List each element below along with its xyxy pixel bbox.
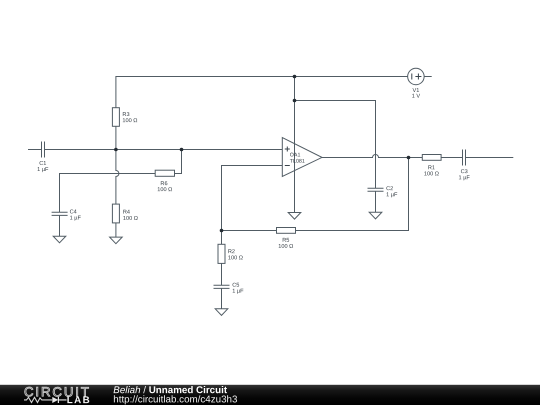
resistor R5 <box>277 228 296 234</box>
svg-text:100 Ω: 100 Ω <box>157 187 172 193</box>
junction: input line / R3-R4 column <box>114 148 118 152</box>
capacitor C1 plates <box>42 142 45 158</box>
capacitor C5 plates <box>214 285 230 288</box>
wire: op-amp inverting input line <box>222 166 283 231</box>
capacitor C2 plates <box>368 188 384 191</box>
svg-text:1 µF: 1 µF <box>459 175 471 181</box>
wire: input line from C1 right plate to op-amp + input <box>45 149 283 151</box>
wire: R2/C5 column to ground <box>221 231 223 309</box>
ground below C4 <box>53 236 66 243</box>
junction: input line / R6 riser <box>180 148 184 152</box>
resistor R1 <box>422 155 441 161</box>
ground below op-amp power column <box>288 213 301 220</box>
svg-text:1 µF: 1 µF <box>232 289 244 295</box>
voltage source V1 circle <box>408 68 425 85</box>
V1 plus symbol <box>415 74 421 80</box>
junction: power column / C2 branch <box>293 99 297 103</box>
op-amp - input symbol <box>285 165 290 167</box>
wire: C2 bottom to ground <box>375 191 377 212</box>
resistor R3 <box>112 108 119 127</box>
svg-text:C3: C3 <box>461 169 468 175</box>
wire: V1 right stub <box>424 76 432 78</box>
svg-text:C4: C4 <box>70 209 77 215</box>
wire: op-amp power column from supply rail through triangle down to ground <box>294 77 296 213</box>
svg-text:1 µF: 1 µF <box>37 167 49 173</box>
ground below R4 <box>110 237 123 244</box>
svg-text:1 V: 1 V <box>412 94 421 100</box>
footer bar background <box>0 385 540 405</box>
svg-text:R3: R3 <box>122 112 129 118</box>
wire: C4 to R6 horizontal line <box>60 174 156 237</box>
svg-text:100 Ω: 100 Ω <box>123 216 138 222</box>
svg-text:100 Ω: 100 Ω <box>424 171 439 177</box>
junction: inverting column / R5 line <box>220 229 224 233</box>
svg-text:R2: R2 <box>228 249 235 255</box>
svg-text:LAB: LAB <box>67 395 91 405</box>
svg-text:100 Ω: 100 Ω <box>228 255 243 261</box>
resistor R6 <box>155 170 174 176</box>
wire: R6 right terminal up to input line <box>175 150 182 174</box>
svg-text:100 Ω: 100 Ω <box>278 244 293 250</box>
capacitor C4 plates <box>52 212 68 215</box>
wire: supply branch to bypass cap C2 (horizontal at y=100.5) <box>295 101 376 189</box>
ground below C5 <box>215 309 228 316</box>
svg-text:1 µF: 1 µF <box>70 216 82 222</box>
svg-text:R5: R5 <box>282 238 289 244</box>
wire: input line left end to C1 left plate <box>28 149 42 151</box>
junction: output node / feedback <box>407 156 411 160</box>
op-amp OA1 triangle <box>282 138 322 177</box>
svg-text:http://circuitlab.com/c4zu3h3: http://circuitlab.com/c4zu3h3 <box>113 394 238 405</box>
wire: output line right of C3 <box>466 157 514 159</box>
svg-text:C5: C5 <box>232 283 239 289</box>
svg-text:OA1: OA1 <box>290 152 301 158</box>
logo diode <box>52 397 58 403</box>
svg-text:R1: R1 <box>428 165 435 171</box>
wire: op-amp output line with hop over C2 column <box>322 155 463 158</box>
svg-text:R4: R4 <box>123 210 130 216</box>
op-amp + input symbol <box>285 147 290 152</box>
svg-text:100 Ω: 100 Ω <box>122 118 137 124</box>
svg-text:TL081: TL081 <box>290 159 305 165</box>
V1 minus terminal bar <box>411 74 413 80</box>
capacitor C3 plates <box>463 150 466 166</box>
resistor R4 <box>112 204 119 223</box>
svg-text:C1: C1 <box>39 161 46 167</box>
logo resistor zigzag <box>24 397 52 402</box>
wire: feedback from output node down and left through R5 to inverting input <box>222 158 409 231</box>
svg-text:1 µF: 1 µF <box>386 192 398 198</box>
wire: top supply rail from R3 column to V1 <box>116 77 408 150</box>
ground below C2 <box>369 212 382 219</box>
wire: R3/R4 column with hop over C4-R6 line <box>116 150 119 238</box>
resistor R2 <box>218 244 225 263</box>
junction: supply rail / power column <box>293 75 297 79</box>
svg-text:C2: C2 <box>386 186 393 192</box>
